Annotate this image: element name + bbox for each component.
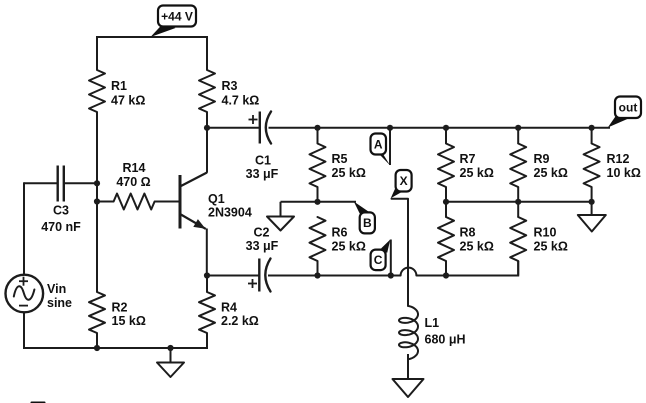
wire left mid rail — [281, 201, 357, 203]
svg-text:33 μF: 33 μF — [246, 167, 279, 181]
node C flag — [371, 240, 391, 271]
node R5 top junction — [314, 125, 320, 131]
svg-text:C1: C1 — [255, 153, 271, 167]
svg-text:2.2 kΩ: 2.2 kΩ — [221, 314, 259, 328]
svg-text:25 kΩ: 25 kΩ — [332, 239, 366, 253]
svg-text:25 kΩ: 25 kΩ — [460, 239, 494, 253]
resistor R3 label — [222, 79, 260, 107]
partial cursor artifact bottom left — [31, 402, 46, 403]
resistor R4 — [199, 292, 215, 333]
wire hop to R10 bottom — [416, 275, 518, 277]
wire C3 right lead — [64, 182, 97, 184]
wire R1 top lead — [96, 36, 98, 70]
node emitter junction — [204, 272, 210, 278]
wire R8 top lead — [445, 202, 447, 217]
svg-text:A: A — [374, 137, 383, 151]
source Vin label — [47, 282, 72, 310]
wire node X branch — [392, 199, 409, 306]
transistor Q1 2N3904 — [180, 173, 207, 229]
resistor R4 label — [221, 301, 259, 329]
wire R6 bottom lead — [317, 261, 319, 276]
wire R9 bottom lead — [517, 187, 519, 202]
node B flag — [354, 202, 375, 234]
resistor R1 — [89, 70, 105, 112]
resistor R12 — [584, 144, 600, 188]
svg-text:680 μH: 680 μH — [425, 333, 466, 347]
svg-text:L1: L1 — [425, 316, 440, 330]
capacitor C3 — [58, 166, 64, 202]
resistor R6 label — [332, 225, 366, 253]
capacitor C2 label — [246, 225, 279, 253]
svg-text:2N3904: 2N3904 — [208, 205, 252, 219]
wire R12 top lead — [591, 128, 593, 144]
inductor L1 — [399, 306, 418, 359]
capacitor C1 polarized — [249, 112, 272, 144]
node R9 R10 junction — [515, 199, 521, 205]
svg-text:+44 V: +44 V — [161, 9, 193, 23]
capacitor C2 polarized — [248, 259, 271, 292]
svg-text:C: C — [374, 253, 383, 267]
node R6 bottom junction — [314, 272, 320, 278]
inductor L1 label — [425, 316, 466, 347]
node A flag — [371, 134, 391, 166]
resistor R9 — [510, 144, 526, 188]
resistor R2 — [89, 292, 105, 333]
wire L1 bottom lead — [407, 354, 409, 380]
node C stub junction — [388, 272, 394, 278]
resistor R8 label — [460, 225, 494, 253]
node +44V supply flag — [151, 6, 197, 38]
node R12 top junction — [589, 125, 595, 131]
resistor R12 label — [607, 152, 641, 180]
svg-text:R9: R9 — [534, 152, 550, 166]
node collector junction — [204, 125, 210, 131]
resistor R5 label — [332, 152, 366, 180]
resistor R6 — [310, 217, 326, 261]
svg-text:B: B — [363, 216, 372, 230]
wire node A stub — [389, 128, 391, 165]
node base network junction (R14 tap) — [94, 198, 100, 204]
ground at R5 rail — [267, 202, 294, 231]
svg-text:25 kΩ: 25 kΩ — [460, 166, 494, 180]
svg-text:R5: R5 — [332, 152, 348, 166]
resistor R10 — [510, 217, 526, 261]
ground main — [157, 348, 184, 377]
wire emitter node to C2 — [207, 275, 259, 277]
wire R7 bottom lead — [445, 187, 447, 202]
svg-text:25 kΩ: 25 kΩ — [534, 239, 568, 253]
wire R4 bottom lead — [206, 333, 208, 349]
wire R3 bottom lead to collector node — [206, 112, 208, 128]
wire C2 to R6 bottom rail — [268, 275, 401, 277]
wire R12 bottom lead — [591, 187, 593, 202]
source Vin sine — [6, 275, 44, 313]
wire base lead from bias node — [97, 201, 114, 203]
wire top supply rail — [97, 36, 207, 38]
transistor Q1 label — [208, 192, 252, 220]
node ground stub junction — [167, 345, 173, 351]
wire R14 to base — [155, 201, 180, 203]
resistor R5 — [310, 144, 326, 188]
resistor R14 — [114, 194, 155, 210]
svg-text:R10: R10 — [534, 225, 557, 239]
wire hop over X branch — [401, 268, 417, 276]
wire R7 top lead — [445, 128, 447, 144]
wire R10 top lead — [517, 202, 519, 217]
ground at R12 — [578, 202, 606, 232]
svg-text:25 kΩ: 25 kΩ — [534, 166, 568, 180]
svg-text:R6: R6 — [332, 225, 348, 239]
svg-text:C2: C2 — [254, 225, 270, 239]
ground at L1 — [393, 379, 424, 397]
svg-text:R14: R14 — [123, 161, 146, 175]
wire C1 to out node rail — [269, 127, 611, 129]
wire Vin top — [23, 182, 25, 275]
node A stub junction — [387, 125, 393, 131]
svg-text:R12: R12 — [607, 152, 630, 166]
node R9 top junction — [515, 125, 521, 131]
svg-text:C3: C3 — [53, 204, 69, 218]
svg-text:Q1: Q1 — [208, 192, 225, 206]
node out flag — [608, 97, 641, 128]
wire R9 top lead — [517, 128, 519, 144]
wire bottom ground rail — [23, 347, 207, 349]
wire R10 bottom lead — [517, 261, 519, 277]
svg-text:sine: sine — [47, 296, 72, 310]
wire node C stub — [390, 240, 392, 276]
wire collector vertical — [206, 128, 208, 173]
wire R5 top lead — [317, 128, 319, 144]
svg-text:25 kΩ: 25 kΩ — [332, 166, 366, 180]
svg-text:R2: R2 — [112, 301, 128, 315]
wire R3 top lead — [206, 36, 208, 70]
svg-text:4.7 kΩ: 4.7 kΩ — [222, 94, 260, 108]
svg-text:R7: R7 — [460, 152, 476, 166]
capacitor C1 label — [246, 153, 279, 181]
svg-text:470 nF: 470 nF — [41, 220, 81, 234]
svg-text:R4: R4 — [221, 301, 237, 315]
resistor R8 — [438, 217, 454, 261]
resistor R10 label — [534, 225, 568, 253]
svg-text:out: out — [619, 101, 638, 115]
svg-text:R1: R1 — [111, 79, 127, 93]
node bias divider junction (C3 tap) — [94, 180, 100, 186]
svg-text:470 Ω: 470 Ω — [116, 175, 150, 189]
node R7 top junction — [443, 125, 449, 131]
svg-text:33 μF: 33 μF — [246, 239, 279, 253]
wire R5 bottom lead — [317, 187, 319, 202]
wire C3 left lead — [24, 182, 58, 184]
wire R1 bottom to R2 top (bias node column) — [96, 112, 98, 292]
wire right mid rail — [446, 201, 592, 203]
resistor R2 label — [112, 301, 146, 329]
node X flag — [391, 170, 412, 198]
wire emitter vertical — [206, 229, 208, 277]
node R8 bottom junction — [443, 272, 449, 278]
wire R8 bottom lead — [445, 261, 447, 276]
resistor R3 — [199, 70, 215, 112]
svg-text:15 kΩ: 15 kΩ — [112, 314, 146, 328]
node R7 R8 junction — [443, 199, 449, 205]
svg-text:R8: R8 — [460, 225, 476, 239]
resistor R14 label — [116, 161, 150, 189]
resistor R7 label — [460, 152, 494, 180]
resistor R7 — [438, 144, 454, 188]
capacitor C3 label — [41, 204, 81, 234]
resistor R1 label — [111, 79, 145, 107]
svg-text:Vin: Vin — [47, 282, 66, 296]
node R5 R6 junction — [314, 199, 320, 205]
wire Vin bottom — [23, 312, 25, 349]
svg-text:47 kΩ: 47 kΩ — [111, 94, 145, 108]
node R12 bottom junction — [589, 199, 595, 205]
svg-text:X: X — [400, 174, 408, 188]
svg-text:R3: R3 — [222, 79, 238, 93]
wire R4 top lead — [206, 276, 208, 293]
svg-text:10 kΩ: 10 kΩ — [607, 166, 641, 180]
resistor R9 label — [534, 152, 568, 180]
node R2 ground junction — [94, 345, 100, 351]
wire R10 bottom lead — [517, 261, 519, 276]
wire collector node to C1 — [207, 127, 260, 129]
wire R2 bottom lead — [96, 333, 98, 349]
